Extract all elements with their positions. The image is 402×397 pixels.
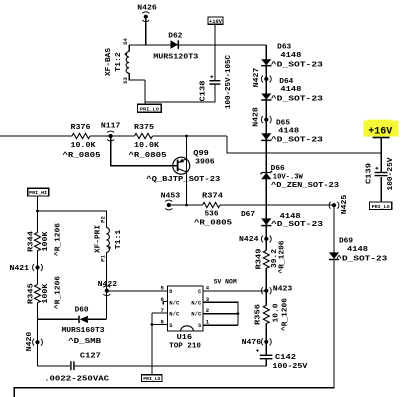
svg-text:U16: U16 bbox=[177, 334, 193, 342]
svg-text:R374: R374 bbox=[202, 193, 223, 201]
svg-text:P1: P1 bbox=[100, 255, 107, 262]
svg-text:4148: 4148 bbox=[280, 52, 301, 60]
resistor R345 bbox=[35, 285, 41, 303]
svg-text:S: S bbox=[169, 323, 172, 329]
svg-text:N424: N424 bbox=[239, 236, 259, 244]
wire pin5 line N422 to U16 bbox=[107, 290, 168, 292]
svg-text:D65: D65 bbox=[276, 120, 290, 128]
wire top line y=44.9 bbox=[129, 44, 266, 46]
wire PRI_HI column bbox=[37, 196, 39, 366]
node N420 bbox=[33, 339, 43, 346]
junction dot at Q99 collector bbox=[185, 204, 188, 207]
wire T1:1 bottom to N422 bbox=[105, 252, 107, 319]
svg-text:536: 536 bbox=[205, 211, 219, 219]
junction dot pin8 bbox=[151, 323, 154, 326]
node N453 bbox=[165, 200, 172, 210]
node N428 bbox=[261, 116, 271, 123]
wire diode chain x=266.3 bbox=[265, 45, 267, 366]
svg-text:+10V: +10V bbox=[209, 19, 223, 25]
svg-text:R345: R345 bbox=[27, 283, 35, 304]
node N476 bbox=[261, 338, 271, 345]
wire pin7 and PRI_LO stub bbox=[152, 313, 168, 375]
wire pin6 stub bbox=[163, 301, 167, 304]
svg-text:D64: D64 bbox=[279, 78, 293, 86]
capacitor C139 bbox=[375, 167, 388, 177]
wire +16V stub and C139 column bbox=[380, 138, 382, 202]
wire D60 line bbox=[38, 318, 107, 320]
svg-text:D62: D62 bbox=[168, 33, 182, 41]
svg-text:TOP 210: TOP 210 bbox=[169, 343, 201, 351]
node N427 bbox=[261, 76, 271, 83]
svg-text:PRI_HI: PRI_HI bbox=[29, 190, 47, 196]
wire +10V stub bbox=[214, 24, 216, 45]
svg-text:C139: C139 bbox=[366, 163, 374, 184]
net label PRI_LO top bbox=[137, 104, 161, 112]
svg-text:D67: D67 bbox=[241, 211, 255, 219]
power label +10V bbox=[208, 17, 223, 25]
diode D63 bbox=[261, 59, 271, 65]
svg-text:D69: D69 bbox=[339, 238, 353, 246]
svg-text:^R_1206: ^R_1206 bbox=[54, 223, 63, 256]
svg-text:10.0K: 10.0K bbox=[134, 142, 160, 150]
svg-text:PRI_LO: PRI_LO bbox=[143, 376, 160, 382]
resistor R374 bbox=[203, 202, 220, 207]
wire T1:2 S3 to PRI_LO bbox=[129, 73, 145, 104]
wire N425 column through D69 bbox=[333, 205, 335, 387]
capacitor C138 bbox=[209, 75, 220, 85]
wire Q99 vertical emitter-collector bbox=[186, 136, 188, 205]
resistor R349 bbox=[263, 251, 269, 269]
svg-text:^R_0805: ^R_0805 bbox=[129, 151, 167, 160]
node N423 bbox=[261, 287, 271, 294]
net label PRI_LO right bbox=[370, 202, 392, 210]
svg-text:.0022-250VAC: .0022-250VAC bbox=[44, 376, 109, 384]
svg-text:N/C: N/C bbox=[169, 300, 179, 306]
svg-text:N426: N426 bbox=[137, 5, 157, 13]
power label +16V with highlight bbox=[364, 120, 399, 139]
svg-text:T1:1: T1:1 bbox=[115, 230, 123, 250]
svg-text:^D_SOT-23: ^D_SOT-23 bbox=[336, 255, 387, 264]
svg-text:N117: N117 bbox=[101, 123, 121, 131]
resistor R356 bbox=[263, 305, 269, 323]
svg-text:N423: N423 bbox=[273, 286, 293, 294]
diode D69 bbox=[329, 252, 339, 259]
svg-text:C142: C142 bbox=[275, 354, 296, 362]
svg-text:R349: R349 bbox=[256, 249, 264, 270]
svg-text:N428: N428 bbox=[252, 107, 260, 127]
node N426 bbox=[142, 12, 149, 22]
net label PRI_LO bottom bbox=[142, 375, 163, 382]
svg-text:C: C bbox=[198, 289, 201, 295]
resistor R344 bbox=[35, 232, 41, 250]
svg-text:^D_SOT-23: ^D_SOT-23 bbox=[271, 60, 323, 69]
svg-text:^R_1206: ^R_1206 bbox=[281, 298, 290, 331]
svg-text:100K: 100K bbox=[42, 283, 50, 304]
junction dot pin2 bbox=[237, 312, 240, 315]
wire pins 3-2-1 bbox=[203, 302, 238, 325]
junction dot at Q99 top bbox=[185, 135, 188, 138]
svg-text:R375: R375 bbox=[134, 124, 154, 132]
wire pin8 stub bbox=[152, 324, 168, 326]
svg-text:P2: P2 bbox=[100, 216, 107, 223]
resistor R376 bbox=[72, 133, 90, 138]
node N424 bbox=[261, 235, 271, 242]
svg-text:N422: N422 bbox=[98, 281, 118, 289]
transistor Q99 bbox=[173, 157, 190, 174]
svg-text:^R_0805: ^R_0805 bbox=[194, 219, 232, 228]
svg-text:XF-BAS: XF-BAS bbox=[105, 48, 113, 76]
svg-text:N476: N476 bbox=[242, 339, 262, 347]
svg-text:4148: 4148 bbox=[347, 246, 368, 254]
wire pin4 line to N423 bbox=[203, 290, 266, 292]
wire bottom rail bbox=[14, 388, 334, 397]
svg-text:4148: 4148 bbox=[278, 128, 299, 136]
capacitor C127 bbox=[70, 361, 74, 370]
node N117 bbox=[107, 131, 114, 141]
wire C138 column bbox=[145, 45, 215, 102]
diode D60 bbox=[79, 316, 88, 323]
capacitor C142 bbox=[256, 349, 272, 359]
transformer T1:2 coil bbox=[125, 52, 129, 74]
wire C127 line bbox=[38, 365, 267, 367]
wire T1:1 link bbox=[38, 211, 107, 228]
junction dot PRI_HI / T1:1 link bbox=[36, 210, 39, 213]
svg-text:^R_1206: ^R_1206 bbox=[54, 276, 63, 309]
svg-text:PRI_LO: PRI_LO bbox=[372, 204, 390, 210]
node N425 bbox=[329, 202, 339, 209]
svg-text:MURS120T3: MURS120T3 bbox=[153, 54, 198, 62]
svg-text:4148: 4148 bbox=[280, 213, 301, 221]
svg-text:N420: N420 bbox=[26, 332, 34, 352]
wire N426 stub bbox=[145, 19, 147, 45]
svg-text:T1:2: T1:2 bbox=[115, 52, 123, 72]
svg-text:N427: N427 bbox=[253, 68, 261, 88]
wire R374 to N425 bbox=[220, 204, 334, 206]
svg-text:100-25V: 100-25V bbox=[272, 363, 308, 371]
svg-text:D63: D63 bbox=[277, 44, 291, 52]
svg-text:100-25V-105C: 100-25V-105C bbox=[225, 55, 233, 109]
svg-text:^R_0805: ^R_0805 bbox=[63, 151, 101, 160]
svg-text:XF-PRI: XF-PRI bbox=[94, 225, 102, 253]
svg-text:^D_SOT-23: ^D_SOT-23 bbox=[271, 135, 323, 144]
svg-text:N453: N453 bbox=[161, 193, 181, 201]
resistor R375 bbox=[135, 133, 153, 138]
svg-text:N425: N425 bbox=[341, 195, 349, 215]
transformer T1:1 coil bbox=[106, 228, 110, 253]
svg-text:Q99: Q99 bbox=[193, 150, 209, 158]
zener diode D66 bbox=[261, 171, 273, 179]
svg-text:PRI_LO: PRI_LO bbox=[140, 106, 159, 112]
svg-text:^D_SMB: ^D_SMB bbox=[68, 337, 102, 346]
node N421 bbox=[33, 264, 43, 271]
svg-text:N/C: N/C bbox=[191, 300, 201, 306]
wire main left line y=136 bbox=[0, 135, 227, 137]
svg-text:D66: D66 bbox=[271, 165, 285, 173]
svg-text:N/C: N/C bbox=[169, 311, 179, 317]
node N422 bbox=[103, 286, 110, 296]
svg-text:^D_SOT-23: ^D_SOT-23 bbox=[271, 94, 323, 103]
svg-text:C127: C127 bbox=[80, 353, 101, 361]
svg-text:MURS160T3: MURS160T3 bbox=[62, 327, 105, 335]
svg-text:C138: C138 bbox=[200, 81, 208, 102]
svg-text:10.0: 10.0 bbox=[273, 304, 281, 323]
svg-text:D: D bbox=[169, 289, 172, 295]
svg-text:R376: R376 bbox=[71, 124, 91, 132]
svg-text:^R_1206: ^R_1206 bbox=[278, 241, 287, 274]
svg-text:N421: N421 bbox=[10, 265, 30, 273]
svg-text:^D_SOT-23: ^D_SOT-23 bbox=[271, 220, 323, 229]
diode D67 bbox=[261, 218, 271, 225]
svg-text:S3: S3 bbox=[122, 77, 129, 84]
wire rail to +16V bbox=[227, 136, 381, 153]
svg-text:7: 7 bbox=[161, 307, 164, 314]
svg-text:100-25V: 100-25V bbox=[387, 157, 395, 191]
svg-text:10.0K: 10.0K bbox=[71, 142, 97, 150]
svg-text:100K: 100K bbox=[42, 231, 50, 252]
svg-text:R356: R356 bbox=[255, 304, 263, 325]
diode D64 bbox=[261, 94, 271, 101]
svg-text:3906: 3906 bbox=[195, 159, 215, 167]
svg-text:R344: R344 bbox=[27, 231, 35, 252]
diode D62 bbox=[171, 40, 179, 49]
IC U16 body bbox=[168, 286, 204, 331]
svg-text:5V NOM: 5V NOM bbox=[214, 279, 237, 286]
svg-text:^Q_BJTP_SOT-23: ^Q_BJTP_SOT-23 bbox=[146, 175, 220, 184]
net label PRI_HI bbox=[28, 188, 49, 196]
diode D65 bbox=[261, 133, 271, 140]
svg-text:S4: S4 bbox=[122, 38, 129, 45]
svg-text:N/C: N/C bbox=[191, 311, 201, 317]
svg-text:10V-.3W: 10V-.3W bbox=[273, 173, 304, 181]
svg-text:^D_ZEN_SOT-23: ^D_ZEN_SOT-23 bbox=[271, 181, 339, 190]
svg-text:D60: D60 bbox=[75, 307, 89, 315]
wire T1:2 top stub bbox=[128, 45, 130, 52]
svg-text:4148: 4148 bbox=[280, 86, 301, 94]
wire N117 drop to Q99 base bbox=[111, 136, 178, 166]
svg-text:+16V: +16V bbox=[368, 125, 393, 137]
wire N453 to R374 bbox=[169, 204, 203, 206]
svg-text:S: S bbox=[198, 323, 201, 329]
